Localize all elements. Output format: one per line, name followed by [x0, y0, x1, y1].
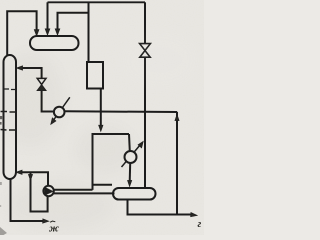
arrow A5 into column side [16, 66, 22, 70]
wire: right riser from bottom line up to W1 [176, 112, 178, 215]
throttle C1 circle [54, 107, 65, 118]
vessel B2 bottom edge [93, 184, 113, 186]
scan smudge artifacts [0, 116, 7, 235]
throttle C1 diagonal arrow [53, 97, 70, 121]
receiver drum D2 (horizontal vessel, bottom) [113, 188, 156, 200]
tray dashed line 2 in column [1, 111, 16, 114]
wire: column bottom outlet to lower-left arrow [11, 179, 45, 221]
label zh (bottom left stream) [50, 221, 55, 222]
paper mottling [0, 30, 200, 231]
pump P1 [43, 186, 53, 196]
valve V1 (upper triangle) [140, 44, 151, 51]
tray dashed line 3 in column [1, 129, 16, 132]
wire: exchanger B1 riser (x=88.5) with branch to drum D1 [88, 2, 90, 62]
wire: column top riser to drum D1 [7, 11, 36, 55]
arrow A1 into drum D1 [34, 30, 39, 36]
wire: C1 to valve V2 riser [42, 91, 54, 112]
wire: branch drop to pump suction [31, 172, 48, 211]
arrow A4 into vessel B2 [99, 125, 103, 131]
heat exchanger B1 (small rectangle) [87, 62, 103, 89]
arrow A10 up on right riser [175, 114, 179, 120]
wire: drop from header to drum D1 [47, 2, 49, 30]
valve V1 (lower triangle) [140, 51, 150, 58]
svg-text:г: г [198, 219, 202, 230]
wire: drum D2 outlet to bottom right [128, 200, 193, 215]
wire: C2 down to drum D2 [129, 163, 132, 182]
wire: top header line [48, 1, 146, 3]
wire: B1 outlet down to vessel B2 [100, 89, 102, 127]
tray dashed line 1 in column [5, 88, 16, 91]
arrow A11 bottom left outlet [43, 219, 49, 223]
wire: return line into column bottom side [20, 172, 49, 185]
arrow A2 into drum D1 [45, 29, 50, 35]
vessel B2 right edge to throttle C2 [128, 134, 131, 151]
arrow A8 into drum D2 [128, 180, 132, 186]
wire: pump discharge lower to drum D2 [54, 192, 115, 194]
arrow A6 into column side [16, 170, 22, 174]
throttle C2 circle [125, 151, 137, 163]
arrow A7 down on branch [28, 174, 32, 180]
wire: valve V2 up and left into column [21, 68, 42, 78]
valve V2 (upper triangle hollow) [37, 78, 46, 84]
wire: branch header to third arrow [58, 13, 89, 31]
throttle C2 diagonal arrow [122, 145, 141, 168]
paper background [0, 0, 204, 235]
condenser drum D1 (horizontal vessel, top) [30, 36, 79, 50]
column K1 (generator vessel, left) [4, 55, 17, 179]
vessel B2 (large rectangle) [93, 134, 130, 190]
valve V2 (lower triangle filled) [37, 85, 46, 91]
wire: long horizontal W1 (throttle line) [64, 110, 177, 113]
arrow A3 into drum D1 [55, 29, 60, 35]
arrow A9 bottom right outlet [191, 212, 198, 216]
wire: pump discharge upper to B2 [54, 189, 93, 191]
wire: header down through valve V1 to drum D2 [144, 2, 146, 43]
